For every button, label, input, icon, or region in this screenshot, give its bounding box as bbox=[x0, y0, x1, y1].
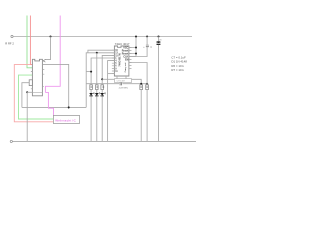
label box (Webmacht IC) bbox=[53, 115, 79, 123]
wire resistor top bus bbox=[86, 83, 147, 85]
node tap1 bbox=[135, 47, 137, 49]
svg-text:EN: EN bbox=[125, 58, 129, 61]
wire chain3 to R7 (left segment) bbox=[102, 78, 114, 80]
node rail above IC1 bbox=[50, 36, 52, 38]
node rail / diode bbox=[158, 36, 160, 38]
green net wire 2 (IC1 to label box) bbox=[19, 75, 54, 119]
IC1 right stubs bbox=[42, 69, 44, 86]
capacitor C7 bbox=[132, 37, 153, 57]
svg-text:R7 = 10 k: R7 = 10 k bbox=[171, 68, 184, 72]
LED D4 bbox=[100, 90, 106, 142]
wire node to IC1 bbox=[27, 91, 32, 93]
node bus junction bbox=[68, 106, 70, 108]
IC1 internal separator bbox=[32, 91, 42, 93]
resistor R3 (LED chain 3) bbox=[101, 85, 104, 90]
resistor R1 (LED chain 1) bbox=[90, 85, 93, 90]
terminal J1 (top left connector circle) bbox=[11, 35, 13, 37]
node R7 top bbox=[140, 83, 142, 85]
wire chain1 tap stub bbox=[86, 71, 91, 73]
svg-text:4: 4 bbox=[115, 60, 117, 63]
wire crystal to bus bbox=[22, 83, 29, 108]
IC2 counter body bbox=[114, 46, 128, 76]
wire LED chain 3 from IC2 bbox=[102, 55, 114, 84]
wire LED chain 1 from IC2 bbox=[91, 58, 114, 85]
svg-text:4,09 MHz: 4,09 MHz bbox=[119, 87, 128, 89]
capacitor on resistor bus bbox=[119, 82, 121, 85]
IC1 left pin ticks bbox=[31, 71, 33, 88]
wire rail to IC1 vcc bbox=[45, 37, 51, 60]
diode D1 bbox=[157, 37, 162, 142]
IC2 left pin stubs bbox=[112, 50, 115, 73]
wire bottom bus bbox=[22, 106, 86, 108]
svg-text:Webmacht IC: Webmacht IC bbox=[55, 119, 76, 123]
red net wire (top vertical into IC1) bbox=[30, 16, 32, 65]
node below IC1 bbox=[26, 91, 28, 93]
magenta net wire B (to label box top) bbox=[45, 92, 53, 115]
svg-text:11: 11 bbox=[115, 71, 118, 73]
node rail / cap bbox=[146, 36, 148, 38]
svg-text:74HC 4017: 74HC 4017 bbox=[115, 42, 130, 46]
wire IC1 pin to bus riser bbox=[42, 64, 68, 109]
wire IC2 vcc riser bbox=[135, 37, 137, 57]
wire LED chain 2 vertical bbox=[96, 53, 98, 85]
crystal Q1 on IC1 left edge bbox=[29, 80, 32, 86]
node rail / vcc riser bbox=[135, 36, 137, 38]
node chain3 R7 tap bbox=[101, 78, 103, 80]
IC2 right pin stubs bbox=[129, 48, 132, 69]
red net wire left loop to label box bbox=[14, 65, 53, 122]
green net wire 1 (top vertical into IC1) bbox=[27, 16, 32, 68]
svg-text:+: + bbox=[143, 46, 145, 49]
svg-text:1N: 1N bbox=[159, 40, 162, 42]
wire IC2 bottom pin stub bbox=[108, 73, 115, 75]
svg-text:CTS 409: CTS 409 bbox=[117, 81, 126, 83]
wire IC2 pin row 1 short loop bbox=[88, 50, 115, 53]
wire top supply rail bbox=[13, 36, 192, 38]
wire vcc taps bbox=[129, 48, 136, 57]
wire node to bottom rail bbox=[26, 92, 28, 141]
LED D3 bbox=[95, 90, 101, 142]
clock pin arrow bbox=[43, 59, 45, 62]
wire IC2 to oscillator bbox=[117, 76, 126, 79]
svg-text:Carry out: Carry out bbox=[124, 62, 127, 72]
IC2 left pin labels bbox=[115, 50, 118, 73]
wire IC2 pin row 2 to left drop bbox=[86, 53, 114, 108]
LED D2 bbox=[89, 90, 95, 142]
node R6 top bbox=[146, 83, 148, 85]
magenta net wire A (long vertical) bbox=[45, 16, 60, 93]
node tap2 bbox=[135, 53, 137, 55]
resistor R2 (LED chain 2) bbox=[96, 85, 99, 90]
wire IC2 pin to ground drop bbox=[108, 61, 115, 142]
wire bottom ground rail bbox=[13, 140, 197, 142]
parts list text block bbox=[171, 55, 187, 72]
IC1 microcontroller body bbox=[32, 59, 42, 96]
resistor R6 bbox=[129, 63, 149, 142]
wire chain3 to R7 (right segment) bbox=[132, 79, 142, 85]
oscillator module under IC2 bbox=[115, 79, 132, 83]
svg-text:R RF 2: R RF 2 bbox=[5, 42, 14, 46]
svg-text:C: C bbox=[150, 47, 152, 49]
node chain1 tap bbox=[90, 71, 92, 73]
IC2 right pin labels bbox=[122, 46, 129, 61]
terminal J2 (bottom left connector circle) bbox=[10, 140, 12, 142]
resistor R7 bbox=[140, 85, 143, 142]
node chain2 tap bbox=[96, 52, 98, 54]
